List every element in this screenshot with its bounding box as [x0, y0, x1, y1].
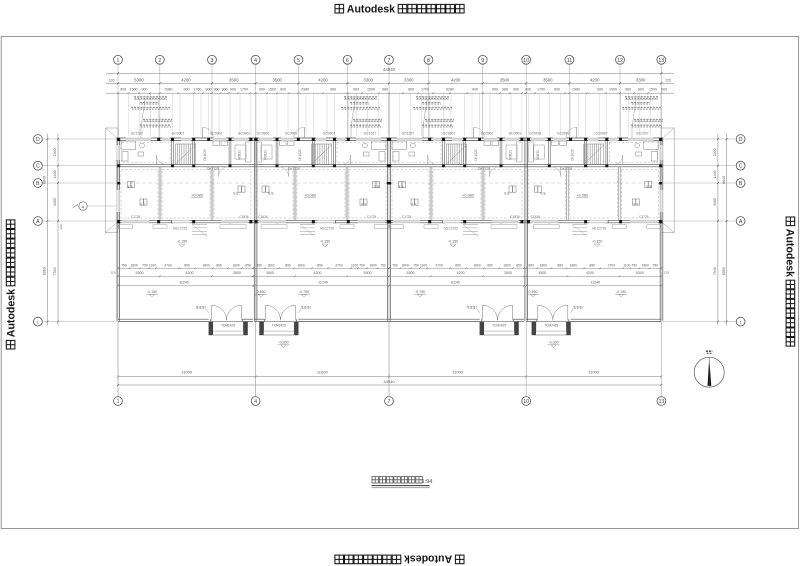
svg-text:750: 750 — [121, 263, 127, 267]
svg-text:900: 900 — [638, 88, 644, 92]
svg-text:1100: 1100 — [420, 263, 427, 267]
svg-text:0.450: 0.450 — [257, 290, 266, 294]
svg-text:850: 850 — [590, 263, 596, 267]
svg-text:2700: 2700 — [335, 263, 343, 267]
svg-text:850: 850 — [184, 263, 190, 267]
svg-text:Autodesk: Autodesk — [347, 4, 395, 16]
gas pipe annotation notes — [134, 97, 167, 99]
svg-text:MLC2725: MLC2725 — [592, 227, 606, 231]
svg-text:750: 750 — [632, 263, 638, 267]
svg-text:2700: 2700 — [164, 263, 172, 267]
unit 3 back door arc — [473, 127, 475, 138]
svg-text:3500: 3500 — [233, 271, 241, 275]
unit 1 bath fixtures — [121, 141, 136, 150]
svg-text:B: B — [36, 181, 40, 187]
svg-text:750: 750 — [359, 263, 365, 267]
unit 2 interior partition walls — [333, 141, 335, 165]
extra axis bubble mid-left — [79, 202, 87, 210]
svg-text:GC1527: GC1527 — [402, 132, 415, 136]
svg-text:D: D — [36, 137, 40, 143]
svg-text:900: 900 — [661, 88, 667, 92]
svg-text:7: 7 — [388, 399, 391, 405]
svg-text:DK1025: DK1025 — [298, 149, 302, 161]
svg-text:5300: 5300 — [364, 271, 372, 275]
svg-text:1800: 1800 — [401, 263, 409, 267]
party wall grid 10 — [524, 138, 526, 321]
svg-text:10: 10 — [523, 58, 529, 64]
watermark right (rotated) — [784, 217, 796, 346]
svg-text:900: 900 — [142, 88, 148, 92]
svg-text:2980: 2980 — [301, 88, 309, 92]
svg-text:4200: 4200 — [586, 271, 594, 275]
svg-text:1: 1 — [117, 58, 120, 64]
svg-text:3: 3 — [211, 58, 214, 64]
svg-text:2700: 2700 — [435, 263, 443, 267]
svg-text:3500: 3500 — [229, 77, 239, 82]
svg-text:11000: 11000 — [181, 370, 193, 375]
east end canopy — [661, 128, 674, 233]
svg-text:1800: 1800 — [130, 263, 138, 267]
unit 1 kitchen counter — [246, 142, 252, 162]
svg-text:850: 850 — [285, 263, 291, 267]
svg-text:3300: 3300 — [404, 77, 414, 82]
unit 2 kitchen boxes — [288, 141, 295, 146]
unit 4 entry door label — [573, 307, 583, 309]
svg-text:11240: 11240 — [318, 280, 328, 284]
svg-text:120: 120 — [110, 271, 115, 275]
unit 2 bath door arc — [350, 155, 352, 165]
bottom auxiliary row bubble left — [34, 317, 43, 326]
svg-text:+0.080: +0.080 — [191, 193, 203, 197]
svg-text:6280: 6280 — [446, 88, 454, 92]
svg-text:9: 9 — [481, 58, 484, 64]
svg-text:1500: 1500 — [649, 88, 657, 92]
svg-text:900: 900 — [120, 88, 126, 92]
svg-text:1800: 1800 — [369, 263, 377, 267]
svg-text:3500: 3500 — [500, 77, 510, 82]
svg-text:+0.080: +0.080 — [462, 193, 474, 197]
svg-text:900: 900 — [206, 88, 212, 92]
unit 3 porch double door — [481, 319, 483, 321]
svg-text:4200: 4200 — [318, 77, 328, 82]
north exterior wall (grid D) — [117, 137, 663, 139]
svg-text:900: 900 — [472, 88, 478, 92]
unit 2 entry door label — [301, 307, 311, 309]
svg-text:1: 1 — [117, 399, 120, 405]
svg-text:2980: 2980 — [572, 88, 580, 92]
svg-text:4200: 4200 — [314, 271, 322, 275]
drawing title — [372, 477, 378, 483]
svg-text:6: 6 — [346, 58, 349, 64]
unit 3 bath fixtures — [392, 141, 407, 150]
unit 2 ceiling dashed insets — [337, 143, 386, 163]
svg-text:11: 11 — [567, 58, 572, 64]
unit 2 bath fixtures — [372, 141, 387, 150]
unit 4 columns — [659, 138, 662, 141]
unit 2 back door arc — [304, 127, 306, 138]
unit 3 entry door label — [467, 307, 477, 309]
unit 4 corridor door arc — [560, 167, 562, 177]
unit 3 radiators — [399, 182, 402, 188]
svg-text:1800: 1800 — [297, 263, 305, 267]
bottom grid bubbles — [114, 397, 123, 406]
svg-text:8060: 8060 — [43, 267, 47, 275]
svg-text:GC0907: GC0907 — [323, 132, 336, 136]
svg-text:1100: 1100 — [149, 263, 156, 267]
unit 3 interior small labels — [398, 186, 404, 187]
svg-text:3300: 3300 — [363, 77, 373, 82]
svg-text:4: 4 — [254, 58, 257, 64]
unit 3 columns — [388, 138, 391, 141]
unit 4 porch slab — [532, 322, 571, 335]
svg-text:GC1527: GC1527 — [131, 132, 144, 136]
unit 2 kitchen counter — [256, 142, 262, 162]
svg-text:DK1725: DK1725 — [207, 167, 219, 171]
svg-text:TCM2425: TCM2425 — [492, 323, 506, 327]
svg-text:Autodesk: Autodesk — [6, 289, 18, 337]
unit 1 windows in exterior walls — [126, 138, 151, 141]
party wall grid 4 — [253, 138, 255, 321]
svg-text:MLC2725: MLC2725 — [320, 227, 334, 231]
unit 4 back door arc — [576, 127, 578, 138]
svg-text:44040: 44040 — [383, 67, 396, 72]
svg-text:11240: 11240 — [179, 280, 189, 284]
svg-text:GC0907: GC0907 — [172, 132, 185, 136]
svg-text:-0.750: -0.750 — [415, 290, 425, 294]
svg-text:1700: 1700 — [240, 88, 248, 92]
svg-text:1800: 1800 — [202, 263, 210, 267]
svg-text:GC0901: GC0901 — [529, 132, 542, 136]
svg-text:1400: 1400 — [713, 170, 717, 178]
svg-text:3500: 3500 — [504, 271, 512, 275]
svg-text:3500: 3500 — [266, 271, 274, 275]
svg-text:-0.150: -0.150 — [177, 239, 187, 243]
svg-text:5300: 5300 — [407, 271, 415, 275]
unit 3 interior partition walls — [442, 141, 444, 165]
unit 1 columns — [117, 138, 120, 141]
svg-text:850: 850 — [529, 263, 535, 267]
svg-text:2300: 2300 — [713, 148, 717, 156]
unit 4 kitchen counter — [528, 142, 534, 162]
south exterior wall (grid A) — [117, 219, 663, 221]
svg-text:10: 10 — [523, 399, 529, 405]
svg-text:1700: 1700 — [421, 88, 429, 92]
svg-text:TCM2425: TCM2425 — [221, 323, 235, 327]
unit 1 porch slab — [209, 322, 248, 335]
svg-text:M0821: M0821 — [509, 150, 513, 160]
watermark bottom (rotated) — [335, 553, 464, 565]
svg-text:4200: 4200 — [451, 77, 461, 82]
svg-text:8: 8 — [427, 58, 430, 64]
east exterior wall — [659, 138, 661, 321]
svg-text:3500: 3500 — [538, 271, 546, 275]
svg-text:C: C — [739, 164, 743, 170]
svg-text:900: 900 — [597, 88, 603, 92]
unit 1 entry steps — [192, 224, 207, 226]
svg-text:M0821: M0821 — [238, 150, 242, 160]
svg-text:900: 900 — [214, 88, 220, 92]
svg-text:4200: 4200 — [590, 77, 600, 82]
svg-text:120: 120 — [664, 271, 669, 275]
svg-text:750: 750 — [142, 263, 148, 267]
svg-text:GC0907: GC0907 — [595, 132, 608, 136]
svg-text:900: 900 — [492, 88, 498, 92]
svg-text:1800: 1800 — [540, 263, 548, 267]
svg-text:850: 850 — [245, 263, 251, 267]
svg-text:C1836: C1836 — [510, 215, 520, 219]
unit 1 sills below south wall — [119, 225, 133, 229]
unit 1 corridor door arc — [218, 167, 220, 177]
unit 3 corridor door arc — [489, 167, 491, 177]
svg-text:M0821: M0821 — [264, 150, 268, 160]
svg-text:MLC2725: MLC2725 — [173, 227, 187, 231]
svg-text:1800: 1800 — [642, 263, 650, 267]
unit 1 interior small labels — [127, 186, 133, 187]
svg-text:1700: 1700 — [194, 88, 202, 92]
svg-text:11000: 11000 — [317, 370, 329, 375]
svg-text:DK1025: DK1025 — [203, 149, 207, 161]
svg-text:6840: 6840 — [43, 176, 47, 184]
svg-text:C1725: C1725 — [367, 215, 377, 219]
svg-text:2980: 2980 — [165, 88, 173, 92]
svg-text:120: 120 — [665, 78, 671, 82]
svg-text:1400: 1400 — [53, 170, 57, 178]
svg-text:-0.150: -0.150 — [616, 290, 626, 294]
unit 1 radiators — [128, 182, 131, 188]
interior corridor wall (grid C) — [117, 164, 663, 166]
svg-text:850: 850 — [455, 263, 461, 267]
unit 4 sills below south wall — [647, 225, 661, 229]
svg-text:5300: 5300 — [136, 271, 144, 275]
svg-text:Autodesk: Autodesk — [784, 229, 796, 277]
svg-text:1800: 1800 — [503, 263, 511, 267]
svg-text:TCM2425: TCM2425 — [272, 323, 286, 327]
unit 2 stair — [312, 144, 332, 165]
svg-text:120: 120 — [59, 224, 63, 229]
svg-text:5: 5 — [297, 58, 300, 64]
svg-text:12: 12 — [617, 58, 623, 64]
unit 4 interior small labels — [646, 186, 652, 187]
svg-text:1800: 1800 — [267, 263, 275, 267]
watermark top — [335, 4, 464, 16]
unit 3 entry steps — [463, 224, 478, 226]
svg-text:Autodesk: Autodesk — [404, 553, 452, 565]
unit 3 south door opening — [443, 220, 461, 223]
unit 4 porch double door — [536, 319, 538, 321]
svg-text:DK1725: DK1725 — [478, 167, 490, 171]
svg-text:-0.300: -0.300 — [278, 341, 288, 345]
svg-text:7: 7 — [388, 58, 391, 64]
unit 4 stair — [584, 144, 604, 165]
svg-text:-0.150: -0.150 — [320, 239, 330, 243]
svg-text:-0.300: -0.300 — [548, 341, 558, 345]
svg-text:5300: 5300 — [134, 77, 144, 82]
svg-text:900: 900 — [554, 88, 560, 92]
svg-text:-0.150: -0.150 — [592, 239, 602, 243]
svg-text:2300: 2300 — [53, 148, 57, 156]
svg-text:DK1725: DK1725 — [560, 167, 572, 171]
svg-text:900: 900 — [230, 88, 236, 92]
svg-text:4200: 4200 — [457, 271, 465, 275]
east wall windows — [660, 145, 663, 160]
svg-text:900: 900 — [259, 88, 265, 92]
svg-text:MLC2725: MLC2725 — [444, 227, 458, 231]
unit 3 windows in exterior walls — [397, 138, 422, 141]
svg-text:C1836: C1836 — [531, 215, 541, 219]
svg-text:6640: 6640 — [722, 176, 726, 184]
svg-text:1100: 1100 — [351, 263, 358, 267]
row grid lines and bubbles D C B A left — [34, 135, 43, 144]
svg-text:850: 850 — [216, 263, 222, 267]
svg-text:850: 850 — [487, 263, 493, 267]
unit 2 windows in exterior walls — [356, 138, 381, 141]
svg-text:B: B — [739, 181, 743, 187]
svg-text:900: 900 — [525, 88, 531, 92]
svg-text:C1725: C1725 — [131, 215, 141, 219]
unit 4 kitchen boxes — [560, 141, 567, 146]
svg-text:A: A — [36, 219, 40, 225]
unit 3 kitchen boxes — [484, 141, 491, 146]
grid B dashed line — [117, 182, 663, 184]
svg-text:8060: 8060 — [722, 267, 726, 275]
bottom auxiliary row bubble right — [736, 317, 745, 326]
svg-text:1500: 1500 — [367, 88, 375, 92]
svg-text:4200: 4200 — [186, 271, 194, 275]
svg-text:750: 750 — [413, 263, 419, 267]
unit 4 south door opening — [590, 220, 608, 223]
svg-text:TCM2425: TCM2425 — [544, 323, 558, 327]
svg-text:3100: 3100 — [713, 198, 717, 206]
svg-text:1800: 1800 — [232, 263, 240, 267]
svg-text:4200: 4200 — [181, 77, 191, 82]
svg-text:GC0901: GC0901 — [257, 132, 270, 136]
unit 2 columns — [387, 138, 390, 141]
svg-text:C1725: C1725 — [402, 215, 412, 219]
unit 1 interior partition walls — [171, 141, 173, 165]
unit 1 bath door arc — [156, 155, 158, 165]
north arrow — [694, 357, 724, 387]
bottom dimension lines — [118, 376, 661, 378]
svg-text:900: 900 — [408, 88, 414, 92]
unit 4 ceiling dashed insets — [609, 143, 658, 163]
svg-text:120: 120 — [109, 78, 115, 82]
unit 1 stair — [176, 144, 196, 165]
unit 4 entry steps — [572, 224, 587, 226]
svg-text:1500: 1500 — [130, 88, 138, 92]
party wall grid 7 — [387, 138, 389, 321]
svg-text:+0.080: +0.080 — [576, 193, 588, 197]
svg-text:GC0907: GC0907 — [443, 132, 456, 136]
right dimension chain — [717, 134, 719, 326]
svg-text:13: 13 — [659, 399, 665, 405]
unit 1 entry door label — [196, 307, 206, 309]
svg-text:D: D — [739, 137, 743, 143]
svg-text:850: 850 — [558, 263, 564, 267]
unit 4 windows in exterior walls — [628, 138, 653, 141]
svg-text:3300: 3300 — [636, 77, 646, 82]
column grid lines and bubbles 1-13 — [114, 55, 123, 64]
unit 4 interior partition walls — [605, 141, 607, 165]
svg-text:900: 900 — [222, 88, 228, 92]
watermark left (rotated) — [6, 220, 18, 349]
west end canopy — [105, 128, 118, 233]
svg-text:M0821: M0821 — [536, 150, 540, 160]
svg-text:DK1725: DK1725 — [288, 167, 300, 171]
svg-text:900: 900 — [513, 88, 519, 92]
west wall windows — [117, 145, 120, 160]
svg-text:DK1025: DK1025 — [474, 149, 478, 161]
svg-text:850: 850 — [317, 263, 323, 267]
svg-text:2700: 2700 — [608, 263, 616, 267]
unit 2 entry steps — [300, 224, 315, 226]
unit 1 south door opening — [172, 220, 190, 223]
svg-text:11000: 11000 — [452, 370, 464, 375]
svg-text:900: 900 — [625, 88, 631, 92]
unit 1 yard front wall — [118, 318, 209, 320]
svg-text:1800: 1800 — [473, 263, 481, 267]
svg-text:DK1025: DK1025 — [571, 149, 575, 161]
svg-text:A: A — [739, 219, 743, 225]
unit 3 ceiling dashed insets — [393, 143, 442, 163]
svg-text:GC0901: GC0901 — [238, 132, 251, 136]
unit 2 porch slab — [260, 322, 299, 335]
svg-text:4: 4 — [254, 399, 257, 405]
svg-text:7940: 7940 — [713, 267, 717, 275]
unit 1 kitchen boxes — [213, 141, 220, 146]
svg-text:750: 750 — [380, 263, 386, 267]
svg-text:C1836: C1836 — [239, 215, 249, 219]
unit 4 bath fixtures — [644, 141, 659, 150]
svg-text:1500: 1500 — [268, 88, 276, 92]
unit 4 bath door arc — [622, 155, 624, 165]
top dimension chain — [106, 72, 674, 74]
svg-text:900: 900 — [184, 88, 190, 92]
svg-text:C1725: C1725 — [639, 215, 649, 219]
svg-text:3100: 3100 — [53, 198, 57, 206]
svg-text:980: 980 — [502, 88, 508, 92]
svg-text:11240: 11240 — [450, 280, 460, 284]
dimension extension lines — [118, 93, 120, 135]
unit 4 yard front wall — [571, 318, 662, 320]
svg-text:1800: 1800 — [570, 263, 578, 267]
svg-text:900: 900 — [280, 88, 286, 92]
unit 2 sills below south wall — [375, 225, 389, 229]
unit 2 south door opening — [318, 220, 336, 223]
svg-text:3500: 3500 — [272, 77, 282, 82]
svg-text:980: 980 — [382, 88, 388, 92]
unit 1 porch double door — [210, 319, 212, 321]
svg-text:GC0901: GC0901 — [509, 132, 522, 136]
unit 1 ceiling dashed insets — [122, 143, 171, 163]
svg-text:1700: 1700 — [537, 88, 545, 92]
svg-text:1100: 1100 — [623, 263, 630, 267]
svg-text:3500: 3500 — [543, 77, 553, 82]
west exterior wall — [116, 138, 118, 321]
unit 3 yard front wall — [389, 318, 480, 320]
svg-text:0.450: 0.450 — [529, 290, 538, 294]
unit 3 kitchen counter — [517, 142, 523, 162]
unit 2 porch double door — [264, 319, 266, 321]
svg-text:-0.750: -0.750 — [299, 290, 309, 294]
svg-text:C: C — [36, 164, 40, 170]
svg-text:750: 750 — [653, 263, 659, 267]
svg-text:13: 13 — [658, 58, 664, 64]
svg-text:2: 2 — [158, 58, 161, 64]
svg-text:900: 900 — [353, 88, 359, 92]
left dimension chain — [57, 134, 59, 326]
svg-text:-0.150: -0.150 — [147, 290, 157, 294]
unit 3 bath door arc — [427, 155, 429, 165]
